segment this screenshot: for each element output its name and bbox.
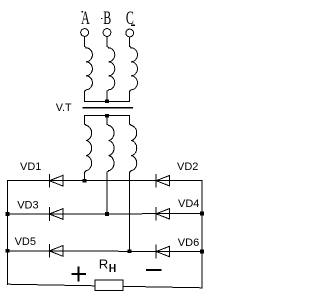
wire right bus xyxy=(201,181,203,288)
diode VD4 xyxy=(156,208,169,221)
svg-text:VD5: VD5 xyxy=(15,236,36,248)
diode VD5 xyxy=(49,245,62,258)
svg-text:VD2: VD2 xyxy=(177,161,198,173)
noise speck near A xyxy=(82,11,83,12)
node right bus rail 2 junction xyxy=(200,212,204,216)
wire secondary star bus xyxy=(85,115,130,117)
node B to rail 2 junction xyxy=(105,212,109,216)
svg-text:R: R xyxy=(99,256,109,271)
terminal A xyxy=(81,29,89,37)
minus sign output polarity xyxy=(147,269,161,271)
primary winding phase B xyxy=(107,37,115,102)
svg-text:VD1: VD1 xyxy=(20,161,41,173)
node secondary star junction xyxy=(105,114,109,118)
node left bus rail 2 junction xyxy=(6,212,10,216)
primary winding phase C xyxy=(130,37,138,101)
wire rail 3 xyxy=(8,250,203,253)
node C to rail 3 junction xyxy=(128,249,132,253)
wire rail 2 xyxy=(8,213,203,216)
diode VD1 xyxy=(49,174,62,187)
svg-text:VD4: VD4 xyxy=(178,198,199,210)
svg-text:VD3: VD3 xyxy=(17,200,38,212)
node left bus rail 3 junction xyxy=(6,249,10,253)
secondary winding phase B xyxy=(107,116,114,214)
svg-text:B: B xyxy=(103,8,111,28)
wire left bus xyxy=(7,181,9,285)
secondary winding phase A xyxy=(85,116,92,181)
wire bottom load loop xyxy=(8,284,203,288)
terminal B xyxy=(103,29,111,37)
noise dash above C terminal xyxy=(131,25,135,26)
resistor RH label xyxy=(99,256,109,271)
svg-text:V.T: V.T xyxy=(56,102,72,114)
wire rail 1 xyxy=(8,180,203,182)
node A to rail 1 junction xyxy=(83,179,87,183)
node primary star junction xyxy=(105,99,109,103)
svg-text:VD6: VD6 xyxy=(178,237,199,249)
diode VD6 xyxy=(156,245,169,258)
secondary winding phase C xyxy=(130,116,137,252)
plus sign output polarity xyxy=(72,268,85,281)
terminal C xyxy=(126,29,134,37)
noise speck near B xyxy=(101,18,102,19)
resistor RH xyxy=(95,280,123,290)
node right bus rail 3 junction xyxy=(200,250,204,254)
diode VD2 xyxy=(156,174,169,187)
diode VD3 xyxy=(49,208,62,221)
wire primary star bus xyxy=(85,100,130,102)
primary winding phase A xyxy=(85,37,93,102)
transformer VT core xyxy=(83,107,132,109)
